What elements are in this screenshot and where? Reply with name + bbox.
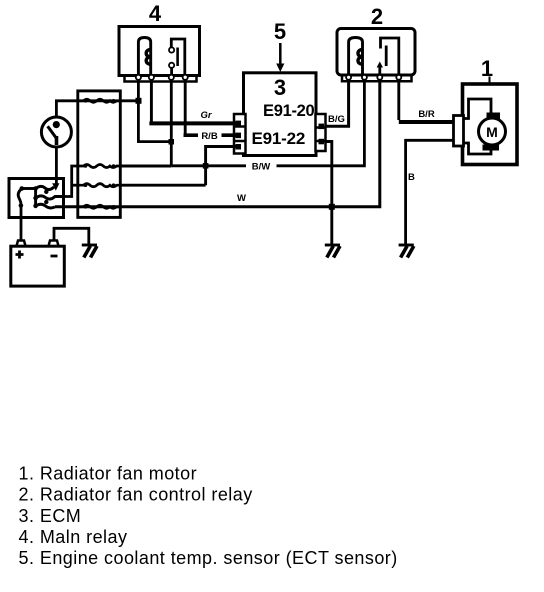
svg-text:2. Radiator fan control relay: 2. Radiator fan control relay [19, 485, 253, 505]
main relay switch fixed wire [171, 39, 185, 75]
fan relay pin circle 4 [396, 75, 401, 80]
switch contact dot C [19, 203, 24, 208]
fan relay switch fixed wire [381, 38, 399, 74]
switch contact dot A [20, 186, 25, 191]
radiator fan motor box (1) [463, 84, 518, 165]
switch arm D wavy [36, 196, 64, 199]
svg-text:B/R: B/R [418, 109, 435, 120]
switch contact dot G [44, 200, 48, 204]
svg-text:B: B [408, 172, 415, 183]
fan relay switch armature bar [385, 46, 388, 67]
ignition feed arrowhead [52, 183, 59, 191]
wire battery minus to ground [54, 228, 89, 244]
switch contact dot D [33, 196, 38, 201]
svg-text:B/G: B/G [328, 114, 345, 125]
key switch lower bar [55, 136, 59, 145]
wire R/B vertical from relay4 pin4 [184, 82, 187, 137]
wire fuse row3 right run [120, 184, 205, 187]
ignition key switch circle [41, 117, 71, 147]
svg-text:1: 1 [481, 56, 493, 81]
sensor 5 arrow line [279, 43, 282, 66]
switch contact dot F [44, 190, 48, 194]
main relay pin circle 2 [149, 75, 154, 80]
wire fuse row2 left drop [64, 166, 78, 197]
svg-text:R/B: R/B [201, 131, 218, 142]
wire fuse row3 from drop [72, 184, 78, 187]
wire Gr vertical from relay4 pin2 [150, 82, 153, 125]
ground G3 (motor) [399, 245, 414, 258]
main relay pin circle 4 [183, 75, 188, 80]
motor internal wire bottom [464, 143, 492, 154]
battery plus sign [16, 251, 24, 259]
svg-text:2: 2 [371, 4, 383, 29]
svg-text:E91-22: E91-22 [252, 129, 306, 148]
ECM right tab terminal 2 [319, 139, 325, 145]
svg-text:E91-20: E91-20 [263, 102, 315, 120]
wire from fuse row1 to key switch [56, 101, 138, 117]
ECM right connector divider 1 [316, 126, 326, 129]
main relay connector strip [125, 76, 197, 82]
ECM right connector divider 2 [316, 140, 326, 143]
switch arm A S-curve [18, 189, 22, 206]
svg-text:W: W [237, 193, 246, 204]
wire B/W right segment [277, 81, 365, 166]
svg-text:M: M [486, 124, 498, 140]
svg-text:5: 5 [274, 19, 286, 44]
battery minus sign [51, 255, 58, 258]
battery plus terminal [17, 241, 26, 247]
motor 1 label tick [489, 77, 491, 85]
node junction W and ECM ground wire [329, 204, 335, 210]
switch arm B to feed [36, 186, 54, 189]
ECM left tab terminal 3 [236, 144, 242, 150]
ECM box (3) [244, 73, 317, 156]
wire ECM lower right tab to ground [326, 142, 332, 245]
battery box [11, 246, 65, 286]
ECM left connector divider 1 [234, 125, 246, 128]
wire B/R horizontal to motor connector [399, 120, 454, 124]
fan relay pin circle 2 [362, 75, 367, 80]
fuse F4 [79, 205, 120, 208]
svg-text:5. Engine coolant temp. sensor: 5. Engine coolant temp. sensor (ECT sens… [19, 548, 398, 568]
node junction tab3 riser and B/W [203, 163, 209, 169]
svg-text:4. Maln relay: 4. Maln relay [19, 527, 128, 547]
ECM left connector divider 2 [234, 140, 246, 143]
wire R/B left segment [184, 133, 199, 137]
ground G1 (battery) [82, 245, 97, 258]
fuse F1 [79, 99, 120, 102]
wire ECM third tab riser [206, 147, 240, 186]
switch arm E wavy [36, 204, 55, 208]
ECM left connector block [234, 114, 246, 154]
switch bus B down [34, 189, 37, 206]
ECM right connector block [316, 114, 326, 151]
switch contact dot E [33, 204, 38, 209]
wire B/W run from pin3 corner to relay2 pin2 [171, 164, 246, 167]
fuse F3 [79, 184, 120, 187]
main relay coil bumps [146, 50, 150, 65]
fan relay coil [349, 38, 363, 75]
wire fuse row2 to B/W junction [120, 165, 171, 168]
main relay switch contact circle top [169, 47, 174, 52]
ECM right tab terminal 1 [319, 124, 325, 130]
svg-text:1. Radiator fan motor: 1. Radiator fan motor [19, 463, 198, 483]
motor top brush terminal [487, 113, 501, 120]
sensor 5 arrowhead [276, 64, 284, 73]
motor connector [454, 116, 464, 147]
fuse box [78, 91, 121, 217]
switch contact dot B [33, 186, 38, 191]
key switch diagonal stroke [48, 126, 57, 138]
main relay pin circle 1 [136, 75, 141, 80]
ECM left tab terminal 1 [236, 121, 242, 127]
ground G2 (ECM) [325, 245, 340, 258]
motor internal wire top [464, 99, 492, 119]
fan relay connector strip [342, 75, 412, 81]
svg-text:4: 4 [149, 1, 162, 26]
fan relay switch moving arm [378, 66, 381, 74]
fuse F2 [79, 165, 120, 168]
fan relay coil bumps [358, 50, 362, 65]
main relay coil [138, 38, 150, 75]
wire key switch to ignition switch box [55, 147, 58, 184]
node junction pin1/pin3 [169, 139, 175, 145]
wire W from switch box through fuse row4 [55, 81, 380, 207]
main relay box (4) [119, 27, 200, 76]
svg-text:3: 3 [274, 75, 286, 100]
svg-text:3. ECM: 3. ECM [19, 506, 82, 526]
fan relay pin circle 1 [346, 75, 351, 80]
wire relay4 pin1 down to junction and across [138, 82, 171, 142]
svg-text:Gr: Gr [200, 110, 212, 121]
node junction fuse row1 / relay pin1 [136, 98, 142, 104]
wire relay4 pin3 down [170, 82, 173, 166]
switch wire A-B [22, 187, 36, 190]
wire B/G from ECM right tab to relay2 pin1 [326, 81, 349, 126]
ECM left tab terminal 2 [236, 133, 242, 139]
main relay switch moving wire [170, 68, 173, 75]
motor M circle [479, 118, 506, 145]
fan relay pin circle 3 [377, 75, 382, 80]
main relay switch contact circle bottom [169, 63, 174, 68]
main relay switch armature bar [176, 48, 179, 67]
fan control relay box (2) [337, 29, 415, 76]
main relay pin circle 3 [169, 75, 174, 80]
wire B/R from relay2 pin4 [397, 81, 400, 120]
wire switch box to battery plus [20, 206, 23, 241]
fan relay switch arrowhead [377, 62, 383, 68]
wire R/B right segment [222, 133, 241, 137]
key switch top dot [53, 121, 60, 128]
wire B motor ground [406, 140, 454, 244]
battery minus terminal [49, 241, 59, 247]
motor bottom brush terminal [483, 145, 500, 151]
svg-text:B/W: B/W [252, 162, 271, 173]
ignition switch box [9, 179, 64, 218]
wire Gr horizontal to ECM [149, 121, 240, 125]
